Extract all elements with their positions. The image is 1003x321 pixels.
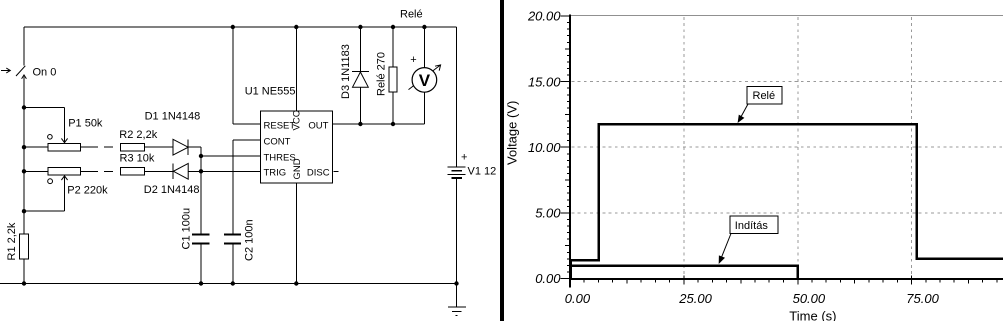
op-amp U1 NE555 box (260, 111, 332, 183)
resistor Relé 270 body (389, 67, 397, 92)
svg-text:TRIG: TRIG (264, 168, 287, 179)
svg-text:DISC: DISC (307, 168, 330, 179)
svg-text:+: + (461, 151, 467, 163)
wire TRIG lead (201, 170, 260, 172)
node dot C2 ground junction (231, 281, 235, 285)
wire P1 wiper link horizontal (24, 107, 65, 109)
svg-text:50.00: 50.00 (793, 291, 826, 306)
node dot THRES junction (199, 154, 203, 158)
svg-text:V1 12: V1 12 (468, 166, 497, 178)
x axis line (569, 278, 1003, 280)
svg-text:Relé 270: Relé 270 (375, 52, 387, 96)
node dot P1 row (22, 145, 26, 149)
node dot D3 rail junction (358, 25, 362, 29)
node dot R1 ground junction (22, 281, 26, 285)
wire RESET riser (232, 27, 234, 124)
switch On 0 blade (16, 66, 25, 76)
svg-text:25.00: 25.00 (678, 291, 712, 306)
trace Relé curve (571, 124, 1003, 279)
svg-text:C1 100u: C1 100u (181, 208, 193, 250)
svg-text:+: + (410, 54, 416, 66)
resistor R1 body (20, 234, 29, 259)
battery V1 plate 3 (448, 173, 466, 175)
diode D1 triangle (173, 139, 188, 155)
svg-text:R3 10k: R3 10k (120, 153, 155, 165)
node dot relay rail junction (391, 25, 395, 29)
ground bar 3 (455, 314, 457, 316)
wire relay resistor bottom lead (392, 92, 394, 124)
wire D1 to node column (188, 146, 201, 148)
wire bottom ground rail (0, 283, 457, 285)
wire P2 wiper riser (64, 177, 66, 211)
x axis minor ticks (584, 280, 997, 284)
diode D1 cathode bar (187, 140, 189, 155)
wire P2 left lead (24, 170, 48, 172)
svg-text:GND: GND (292, 158, 303, 179)
svg-text:Relé: Relé (753, 90, 776, 102)
wire P2 output lead (80, 170, 98, 172)
svg-text:VCC: VCC (291, 110, 302, 130)
node dot C1 ground junction (199, 281, 203, 285)
wire VCC riser (295, 27, 297, 111)
wire D2 to node column (188, 170, 201, 172)
svg-text:CONT: CONT (264, 136, 291, 147)
svg-text:C2 100n: C2 100n (244, 219, 256, 261)
trace Indítás curve (571, 266, 798, 279)
svg-text:P2 220k: P2 220k (67, 184, 108, 196)
diode D3 triangle (353, 72, 369, 87)
wire THRES lead (201, 155, 260, 157)
node dot relay out junction (391, 122, 395, 126)
ground bar 2 (452, 311, 461, 313)
battery V1 plate 4 (451, 177, 462, 179)
potentiometer P1 body (48, 144, 80, 151)
gridline 10V (572, 146, 1003, 148)
ground symbol stem (456, 284, 458, 307)
x axis major ticks (570, 275, 912, 284)
wire voltmeter top lead (423, 27, 425, 68)
label arrow Relé (741, 104, 748, 116)
label box Indítás (730, 216, 778, 234)
voltmeter U2 circle (412, 68, 437, 93)
battery V1 plate 2 (451, 170, 462, 172)
node junction dot (22, 105, 26, 109)
gridline 5V (572, 212, 1003, 214)
label arrow Indítás (722, 234, 731, 258)
wire OUT row (333, 123, 425, 125)
gridline 50s (797, 17, 799, 278)
wire dash segment (104, 146, 113, 148)
svg-text:On 0: On 0 (33, 67, 57, 79)
wire P1 left lead (24, 146, 48, 148)
wire D3 top lead (359, 27, 361, 71)
voltmeter arrow (409, 65, 441, 90)
node dot D3 out junction (358, 122, 362, 126)
wire C2 bottom lead (232, 243, 234, 283)
wire C1 bottom lead (200, 243, 202, 283)
node dot VCC rail junction (294, 25, 298, 29)
wire R2 to D1 (145, 146, 174, 148)
node dot voltmeter rail junction (422, 25, 426, 29)
svg-text:0.00: 0.00 (535, 271, 561, 286)
node dot GND ground junction (294, 281, 298, 285)
node dot P2 row (22, 169, 26, 173)
svg-text:D2 1N4148: D2 1N4148 (144, 184, 200, 196)
svg-text:D3 1N1183: D3 1N1183 (340, 44, 352, 99)
wire voltmeter bottom lead (423, 92, 425, 124)
diode D2 triangle (173, 163, 188, 179)
svg-text:Voltage (V): Voltage (V) (505, 101, 520, 165)
diode D2 cathode bar (172, 163, 174, 179)
svg-text:20.00: 20.00 (527, 9, 561, 24)
svg-text:R2 2,2k: R2 2,2k (119, 129, 157, 141)
gridline 15V (572, 81, 1003, 83)
node dot battery ground junction (454, 281, 458, 285)
wire top supply rail (24, 26, 457, 28)
switch On 0 lower wire (23, 77, 25, 108)
potentiometer P1 wiper arrowhead (61, 138, 67, 142)
gridline 75s (911, 17, 913, 278)
label box Relé (747, 87, 782, 105)
svg-text:Relé: Relé (400, 9, 423, 21)
wire trigger node column (200, 147, 202, 235)
capacitor C2 top plate (224, 234, 241, 236)
wire P1 output lead (80, 146, 98, 148)
svg-text:Time (s): Time (s) (789, 309, 836, 321)
switch On 0 upper wire (23, 27, 25, 66)
potentiometer P1 terminal circle (48, 135, 53, 140)
svg-text:10.00: 10.00 (528, 140, 561, 155)
y axis minor ticks (565, 23, 570, 272)
node dot P2 wiper row (22, 209, 26, 213)
node dot RESET rail junction (231, 25, 235, 29)
svg-text:Indítás: Indítás (735, 220, 769, 232)
node dot TRIG junction (199, 169, 203, 173)
svg-text:0.00: 0.00 (565, 291, 591, 306)
wire P2 wiper link horizontal (24, 210, 65, 212)
svg-text:D1 1N4148: D1 1N4148 (145, 111, 201, 123)
svg-text:R1 2,2k: R1 2,2k (6, 222, 18, 260)
wire R1 top lead (23, 211, 25, 234)
wire CONT lead (233, 139, 261, 141)
wire R3 to D2 (145, 170, 174, 172)
label arrowhead Relé (738, 115, 745, 123)
battery V1 plate 1 (448, 166, 466, 168)
wire battery top lead (456, 27, 458, 167)
divider bar between schematic and chart (500, 0, 504, 321)
wire left rail (23, 108, 25, 235)
wire P1 wiper riser (64, 108, 66, 142)
diode D3 cathode bar (352, 71, 369, 73)
resistor R2 body (120, 144, 144, 152)
potentiometer P2 body (48, 168, 80, 175)
wire battery bottom lead (456, 178, 458, 284)
svg-text:P1 50k: P1 50k (68, 118, 103, 130)
svg-text:15.00: 15.00 (528, 74, 561, 89)
capacitor C2 bottom plate (224, 243, 241, 245)
wire dash segment (104, 170, 113, 172)
ground bar 1 (448, 306, 466, 308)
potentiometer P2 wiper arrowhead (61, 176, 67, 180)
wire R1 bottom lead (23, 259, 25, 284)
svg-text:U1 NE555: U1 NE555 (245, 85, 296, 97)
label arrowhead Indítás (719, 255, 725, 264)
switch On 0 actuate arrow (1, 68, 10, 73)
switch On 0 contact arrow (22, 75, 27, 79)
svg-text:OUT: OUT (308, 120, 328, 131)
wire relay resistor top lead (392, 27, 394, 67)
wire GND riser (295, 183, 297, 284)
wire D3 bottom lead (359, 88, 361, 124)
wire DISC stub (334, 170, 339, 172)
resistor R3 body (120, 168, 144, 176)
wire RESET lead (233, 123, 261, 125)
y axis major ticks (561, 16, 571, 278)
y axis line (569, 15, 571, 288)
wire CONT to C2 riser (232, 140, 234, 235)
svg-text:75.00: 75.00 (906, 291, 939, 306)
chart top boundary line 20V (571, 15, 1003, 17)
gridline 25s (683, 17, 685, 278)
capacitor C1 top plate (192, 234, 209, 236)
potentiometer P2 terminal circle (48, 179, 53, 184)
capacitor C1 bottom plate (192, 243, 209, 245)
svg-text:5.00: 5.00 (535, 206, 561, 221)
svg-text:V: V (419, 71, 431, 90)
